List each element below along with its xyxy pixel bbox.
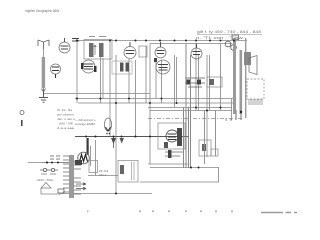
- svg-text:AM - NF: AM - NF: [59, 122, 73, 126]
- wire v x135: [135, 60, 137, 136]
- selector wire: [41, 188, 61, 194]
- mains switch leads: [40, 169, 58, 171]
- power transformer core: [69, 155, 74, 198]
- voltage selector triangle: [41, 183, 51, 189]
- diode D1: [111, 138, 116, 144]
- underline: [197, 34, 262, 36]
- svg-text:AM 1: AM 1: [99, 173, 106, 177]
- magic eye target: [106, 127, 111, 131]
- secondary winding ticks: [74, 161, 81, 194]
- switch dots: [46, 162, 48, 164]
- wire bottom line 1: [150, 167, 219, 169]
- C2 plates: [52, 67, 59, 78]
- output choke dark rect: [244, 52, 251, 65]
- wire bus 5: [150, 110, 232, 112]
- tuning capacitor C2: [51, 64, 61, 74]
- wire v x218 bottom: [218, 168, 220, 183]
- wire v x220: [220, 44, 222, 111]
- vert pair x183-190: [184, 44, 191, 169]
- antenna: [38, 40, 49, 49]
- V6 electrodes: [158, 65, 168, 71]
- aux box: [211, 149, 218, 156]
- main AF bus dark: [75, 136, 188, 138]
- output stage box: [158, 123, 185, 149]
- oscillator coil L2: [112, 61, 132, 74]
- detector blobs: [186, 80, 190, 85]
- wire v x77: [76, 41, 78, 104]
- capacitor C1: [72, 39, 79, 42]
- svg-text:Ingelen Geographic 56W .: Ingelen Geographic 56W .: [25, 9, 61, 13]
- wire v x174: [174, 55, 176, 107]
- band switch contacts: [50, 156, 60, 159]
- cathode parts: [164, 142, 168, 148]
- UKW box: [118, 161, 138, 183]
- tube V4: [191, 48, 202, 59]
- ZF box: [89, 161, 98, 173]
- output tube electrodes: [168, 134, 177, 140]
- V6 top mark: [154, 58, 157, 62]
- wire v x196: [195, 44, 197, 111]
- tone network box: [199, 140, 211, 156]
- tube V2: [124, 47, 136, 59]
- connector circle left: [20, 111, 24, 115]
- V5 electrodes: [84, 64, 94, 69]
- volume pot: [78, 152, 90, 164]
- wire v x176: [176, 57, 178, 103]
- T1 core arrows: [94, 45, 96, 55]
- footer tick dots: [87, 211, 233, 212]
- below-box blob: [168, 150, 172, 158]
- tube V5 hexode: [82, 60, 95, 73]
- wire v x156: [155, 59, 157, 98]
- connector pin: [21, 120, 23, 126]
- wire v x209: [209, 55, 211, 110]
- dash-dot line: [148, 118, 244, 120]
- transformer top blobs: [75, 160, 82, 165]
- fuse marks: [41, 173, 56, 175]
- svg-text:Jan. u.Jan.u: Jan. u.Jan.u: [57, 117, 75, 121]
- wire bottom line 2: [140, 181, 219, 183]
- wire bus 4: [148, 107, 232, 109]
- wire v x198: [198, 55, 200, 110]
- tone cap: [202, 144, 206, 151]
- IF transformer T1 can: [84, 40, 112, 60]
- junction dots AF bus: [85, 136, 151, 138]
- wire second top bus: [150, 43, 232, 45]
- wire v x150: [149, 44, 151, 165]
- UKW inner winding: [120, 165, 124, 174]
- wire bus 3: [78, 102, 236, 104]
- wire v x129: [128, 59, 130, 103]
- wire v x90: [90, 146, 92, 166]
- V2 electrodes: [126, 42, 135, 54]
- wire agc bus: [43, 93, 150, 95]
- antenna coil L1: [42, 57, 45, 88]
- power bar 2: [240, 50, 243, 114]
- wire bottom mid: [88, 175, 118, 177]
- wire bottom bus left: [61, 193, 152, 195]
- resistor R20 dark bar: [87, 138, 89, 155]
- speaker magnet hatch: [248, 100, 263, 104]
- vert pair x204-215: [205, 110, 216, 164]
- tube V1a: [59, 42, 70, 53]
- switch wire: [42, 162, 75, 164]
- svg-text:220V~ 50Hz: 220V~ 50Hz: [37, 178, 54, 182]
- speaker cone: [249, 56, 257, 75]
- coil arrow: [42, 88, 46, 92]
- output tube dark: [166, 130, 178, 142]
- output transformer winding: [177, 128, 182, 146]
- pilot lamp 2: [231, 45, 237, 51]
- coupling box: [139, 46, 147, 57]
- diode D2: [120, 138, 125, 144]
- wire bottom mid 2: [148, 163, 188, 165]
- junction dots bottom: [46, 162, 200, 195]
- V5 anode blobs: [81, 63, 84, 69]
- detector cluster: [185, 78, 205, 87]
- T1 trimmer marks: [89, 36, 106, 38]
- small cap C30: [58, 189, 64, 193]
- diode D1 lead: [113, 137, 115, 149]
- power bar 1: [233, 38, 236, 114]
- svg-text:am oberen: am oberen: [57, 113, 74, 117]
- pilot lamp 1: [225, 41, 231, 47]
- wire v x110: [109, 41, 111, 137]
- resistor network box: [207, 77, 222, 87]
- V4 electrodes: [193, 44, 201, 55]
- tube V3: [155, 47, 166, 58]
- cross junction: [236, 110, 241, 120]
- junction dots mid: [76, 98, 222, 112]
- L2 windings: [120, 63, 124, 72]
- wire v x103: [102, 58, 104, 99]
- wire v x207: [206, 55, 208, 157]
- speaker frame dashed: [247, 79, 264, 99]
- wire v x100: [100, 55, 102, 103]
- wire v x116: [115, 55, 117, 193]
- svg-text:gilt f. ty 450 - 740 - 844 - 8: gilt f. ty 450 - 740 - 844 - 845: [197, 29, 262, 34]
- magic eye tube: [104, 118, 111, 131]
- wire v x95: [95, 140, 97, 175]
- wire v x161: [161, 60, 163, 103]
- magic eye pins: [106, 133, 108, 135]
- T1 secondary winding: [99, 43, 104, 57]
- wire vertical antenna feed: [43, 49, 45, 57]
- arrow terminals: [76, 183, 86, 190]
- primary winding ticks: [63, 156, 69, 192]
- dash-dot T marks: [226, 119, 231, 122]
- junction dots top bus: [76, 39, 235, 41]
- svg-text:W. 1/2 - Ra: W. 1/2 - Ra: [57, 108, 72, 112]
- mains switch: [43, 168, 46, 171]
- tube V6 triode: [156, 60, 170, 74]
- wires group: [28, 41, 247, 194]
- power bar 3: [245, 38, 246, 118]
- svg-text:A.a.a aaa: A.a.a aaa: [57, 126, 74, 130]
- svg-text:anzeige EM80: anzeige EM80: [75, 122, 95, 126]
- wire v x231: [231, 99, 233, 121]
- wire mains: [28, 162, 69, 164]
- tube V1a electrodes: [61, 38, 69, 49]
- pot zigzag: [80, 155, 88, 162]
- wire top bus: [77, 40, 247, 42]
- wire v x146: [145, 46, 147, 103]
- wire bus 2: [75, 98, 236, 100]
- V3 electrodes: [157, 42, 165, 54]
- UKW inner lines: [132, 162, 135, 180]
- footer caption dashes: [261, 212, 297, 214]
- T1 primary winding: [89, 43, 94, 57]
- below-box marks: [165, 152, 184, 156]
- ground: [39, 92, 48, 102]
- rectifier cluster box: [232, 35, 239, 40]
- resistor R10: [209, 79, 214, 85]
